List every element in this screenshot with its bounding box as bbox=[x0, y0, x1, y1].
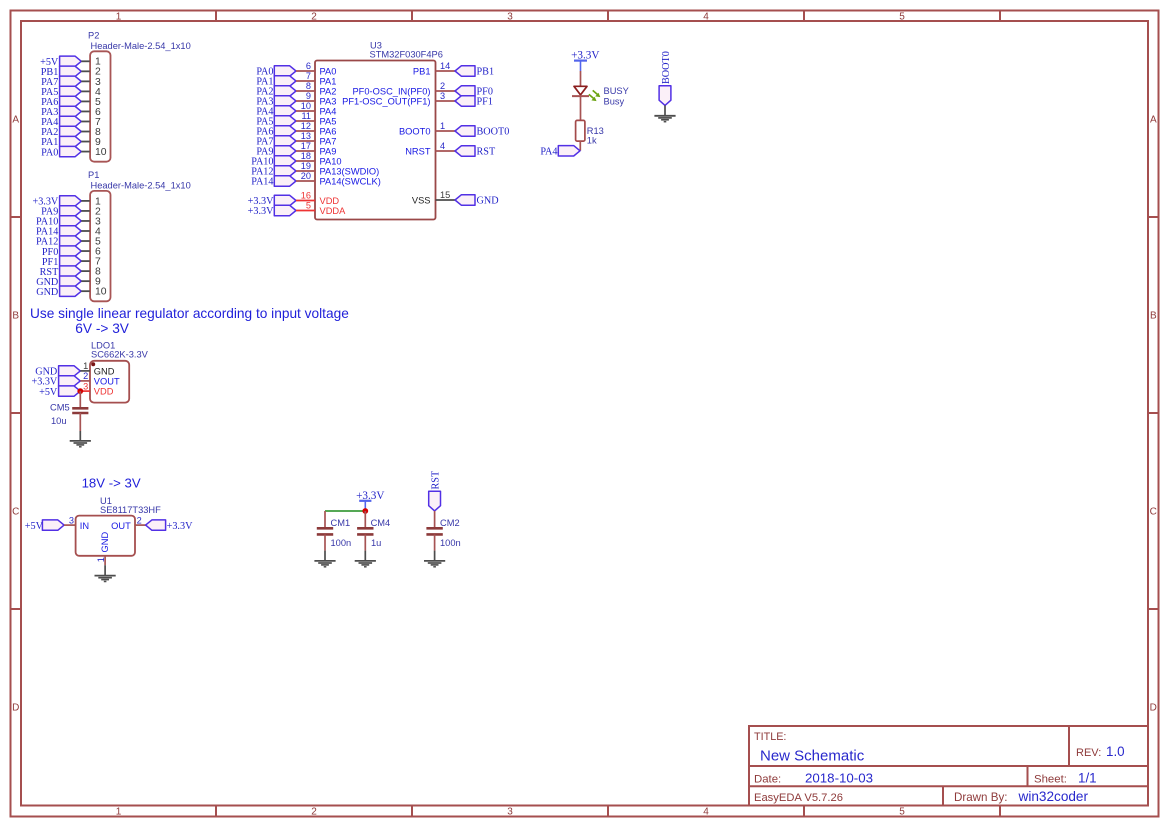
svg-text:Drawn By:: Drawn By: bbox=[954, 791, 1007, 804]
svg-text:C: C bbox=[1150, 506, 1157, 517]
svg-text:PB1: PB1 bbox=[413, 67, 431, 77]
svg-text:GND: GND bbox=[477, 196, 499, 207]
U3 right pin 4 NRST / net RST bbox=[405, 141, 496, 158]
svg-text:2: 2 bbox=[440, 81, 445, 91]
svg-text:OUT: OUT bbox=[111, 521, 131, 531]
svg-text:2: 2 bbox=[311, 11, 317, 22]
U3 left pin 8 PA2 / net PA2 bbox=[256, 81, 336, 98]
svg-text:PA10: PA10 bbox=[320, 157, 342, 167]
svg-text:2: 2 bbox=[137, 515, 142, 525]
title block DrawnBy divider bbox=[942, 786, 944, 805]
svg-text:7: 7 bbox=[306, 71, 311, 81]
svg-text:+3.3V: +3.3V bbox=[248, 206, 274, 217]
power flag +3.3V (LED) bbox=[571, 50, 599, 71]
P1 pin 6 / net PF0 bbox=[42, 246, 101, 258]
svg-text:1: 1 bbox=[440, 121, 445, 131]
frame left tick 2 bbox=[11, 412, 22, 414]
U3 left pin 11 PA5 / net PA5 bbox=[256, 111, 336, 128]
U3 left pin 19 PA13(SWDIO) / net PA12 bbox=[251, 161, 379, 178]
capacitor CM1 plates bbox=[317, 528, 333, 534]
svg-text:BOOT0: BOOT0 bbox=[477, 127, 510, 138]
svg-text:6V -> 3V: 6V -> 3V bbox=[75, 321, 130, 336]
svg-text:14: 14 bbox=[440, 61, 450, 71]
title block row divider 1 bbox=[749, 765, 1148, 767]
LDO1 pin1 dot bbox=[91, 362, 95, 366]
U3 left pin 13 PA7 / net PA7 bbox=[256, 131, 336, 148]
LED emission arrow 1 bbox=[593, 90, 601, 97]
svg-text:PA0: PA0 bbox=[320, 67, 337, 77]
frame bottom tick 4 bbox=[803, 806, 805, 817]
svg-text:Use single linear regulator ac: Use single linear regulator according to… bbox=[30, 306, 349, 321]
LED D1 cathode bar bbox=[572, 95, 589, 97]
svg-text:1: 1 bbox=[116, 11, 122, 22]
frame bottom tick 2 bbox=[411, 806, 413, 817]
svg-text:8: 8 bbox=[306, 81, 311, 91]
LED emission arrow 2 bbox=[589, 94, 597, 101]
U3 left pin 6 PA0 / net PA0 bbox=[256, 61, 336, 78]
svg-text:12: 12 bbox=[301, 121, 311, 131]
svg-text:A: A bbox=[1150, 114, 1157, 125]
U1 pin 1 wire to ground bbox=[104, 556, 106, 575]
svg-text:PA6: PA6 bbox=[320, 127, 337, 137]
svg-text:GND: GND bbox=[100, 532, 110, 553]
svg-text:9: 9 bbox=[306, 91, 311, 101]
frame bottom tick 1 bbox=[215, 806, 217, 817]
svg-text:15: 15 bbox=[440, 190, 450, 200]
frame right tick 3 bbox=[1148, 608, 1159, 610]
svg-text:10u: 10u bbox=[51, 416, 67, 426]
wire +3.3V to LED anode bbox=[580, 71, 582, 86]
LDO1 pin 3 VDD / net +5V bbox=[39, 381, 114, 397]
svg-text:100n: 100n bbox=[440, 538, 461, 548]
U3 left pin 10 PA4 / net PA4 bbox=[256, 101, 336, 118]
svg-text:4: 4 bbox=[703, 806, 709, 817]
svg-text:13: 13 bbox=[301, 131, 311, 141]
capacitor CM5 plates bbox=[72, 408, 88, 413]
svg-text:PF1: PF1 bbox=[477, 97, 493, 108]
svg-text:D: D bbox=[12, 702, 19, 713]
P2 pin 10 / net PA0 bbox=[41, 146, 107, 158]
U3 right pin 1 BOOT0 / net BOOT0 bbox=[399, 121, 509, 138]
LDO1 pin 2 VOUT / net +3.3V bbox=[31, 371, 119, 387]
svg-text:PB1: PB1 bbox=[477, 67, 495, 78]
svg-text:VSS: VSS bbox=[412, 196, 431, 206]
U3 right pin 3 PF1-OSC_OUT(PF1) / net PF1 bbox=[342, 91, 493, 108]
capacitor CM2 plates bbox=[426, 528, 442, 534]
svg-text:R13: R13 bbox=[587, 126, 604, 136]
svg-text:3: 3 bbox=[507, 11, 513, 22]
regulator LDO1 body bbox=[90, 361, 129, 403]
svg-text:PF0-OSC_IN(PF0): PF0-OSC_IN(PF0) bbox=[352, 87, 430, 97]
net flag BOOT0 (vertical) bbox=[659, 51, 672, 105]
svg-text:11: 11 bbox=[301, 111, 311, 121]
frame top tick 2 bbox=[411, 11, 413, 22]
connector P2 body bbox=[90, 51, 110, 161]
P1 pin 2 / net PA9 bbox=[41, 206, 101, 218]
svg-text:REV:: REV: bbox=[1076, 747, 1101, 759]
wire +3.3V junction to CM4 bbox=[364, 511, 366, 528]
svg-text:+5V: +5V bbox=[39, 387, 58, 398]
wire RST to CM2 bbox=[434, 511, 436, 528]
P2 pin 3 / net PA7 bbox=[41, 76, 101, 88]
wire CM5 to ground bbox=[79, 413, 81, 441]
svg-text:D: D bbox=[1150, 702, 1157, 713]
svg-text:PA14(SWCLK): PA14(SWCLK) bbox=[320, 177, 381, 187]
svg-text:VOUT: VOUT bbox=[94, 377, 120, 387]
P1 pin 4 / net PA14 bbox=[36, 226, 101, 238]
svg-text:PA5: PA5 bbox=[320, 117, 337, 127]
svg-text:18: 18 bbox=[301, 151, 311, 161]
svg-text:VDD: VDD bbox=[94, 387, 114, 397]
wire CM4 to ground bbox=[364, 534, 366, 560]
P2 pin 5 / net PA6 bbox=[41, 96, 101, 108]
svg-text:Header-Male-2.54_1x10: Header-Male-2.54_1x10 bbox=[91, 181, 191, 191]
mcu U3 body bbox=[315, 61, 436, 220]
svg-text:PA13(SWDIO): PA13(SWDIO) bbox=[320, 167, 380, 177]
wire to CM1 top bbox=[324, 511, 326, 528]
svg-text:Sheet:: Sheet: bbox=[1034, 773, 1067, 785]
U3 left pin 17 PA9 / net PA9 bbox=[256, 141, 336, 158]
svg-text:5: 5 bbox=[899, 806, 905, 817]
power flag +3.3V (caps) bbox=[356, 490, 384, 509]
U3 power pin 5 VDDA / net +3.3V bbox=[248, 201, 346, 218]
P1 pin 7 / net PF1 bbox=[42, 256, 101, 268]
svg-text:3: 3 bbox=[507, 806, 513, 817]
svg-text:20: 20 bbox=[301, 171, 311, 181]
svg-text:10: 10 bbox=[95, 287, 107, 298]
green wire +3.3V to CM1 bbox=[325, 510, 365, 512]
svg-text:1u: 1u bbox=[371, 538, 381, 548]
P2 pin 2 / net PB1 bbox=[41, 66, 101, 78]
ground (CM2) bbox=[424, 561, 445, 567]
svg-text:GND: GND bbox=[36, 287, 58, 298]
frame left tick 3 bbox=[11, 608, 22, 610]
svg-text:5: 5 bbox=[306, 201, 311, 211]
ground (CM1) bbox=[314, 561, 335, 567]
svg-text:17: 17 bbox=[301, 141, 311, 151]
U1 pin 3 IN / net +5V bbox=[25, 515, 89, 532]
svg-text:PA4: PA4 bbox=[320, 107, 337, 117]
svg-text:RST: RST bbox=[430, 470, 441, 489]
P1 pin 10 / net GND bbox=[36, 286, 107, 298]
wire CM1 to ground bbox=[324, 534, 326, 560]
frame top tick 5 bbox=[999, 11, 1001, 22]
svg-text:B: B bbox=[12, 310, 19, 321]
ground (U1) bbox=[95, 576, 116, 582]
svg-text:NRST: NRST bbox=[405, 147, 431, 157]
svg-text:1: 1 bbox=[83, 361, 88, 371]
svg-text:10: 10 bbox=[301, 101, 311, 111]
U3 left pin 12 PA6 / net PA6 bbox=[256, 121, 336, 138]
U3 power pin 16 VDD / net +3.3V bbox=[248, 191, 340, 208]
svg-text:19: 19 bbox=[301, 161, 311, 171]
P2 pin 8 / net PA2 bbox=[41, 126, 101, 138]
svg-text:2: 2 bbox=[311, 806, 317, 817]
svg-text:BOOT0: BOOT0 bbox=[661, 51, 672, 84]
svg-text:CM2: CM2 bbox=[440, 518, 460, 528]
P1 pin 5 / net PA12 bbox=[36, 236, 101, 248]
svg-text:4: 4 bbox=[703, 11, 709, 22]
svg-text:100n: 100n bbox=[331, 538, 352, 548]
U3 right pin 14 PB1 / net PB1 bbox=[413, 61, 494, 78]
svg-text:2018-10-03: 2018-10-03 bbox=[805, 770, 873, 785]
svg-text:1k: 1k bbox=[587, 135, 597, 145]
P2 pin 9 / net PA1 bbox=[41, 136, 101, 148]
frame right tick 1 bbox=[1148, 216, 1159, 218]
title block REV divider bbox=[1068, 726, 1070, 766]
svg-text:B: B bbox=[1150, 310, 1157, 321]
P1 pin 8 / net RST bbox=[40, 266, 101, 278]
svg-text:5: 5 bbox=[899, 11, 905, 22]
svg-text:IN: IN bbox=[80, 521, 89, 531]
svg-text:1/1: 1/1 bbox=[1078, 770, 1097, 785]
svg-text:A: A bbox=[12, 114, 19, 125]
P2 pin 4 / net PA5 bbox=[41, 86, 101, 98]
svg-text:New Schematic: New Schematic bbox=[760, 747, 865, 764]
svg-text:2: 2 bbox=[83, 371, 88, 381]
ground (CM5) bbox=[70, 441, 91, 447]
U3 right pin 15 VSS / net GND bbox=[412, 190, 499, 207]
U3 left pin 7 PA1 / net PA1 bbox=[256, 71, 336, 88]
wire CM2 to ground bbox=[434, 534, 436, 560]
connector P1 body bbox=[90, 191, 110, 301]
svg-text:PA4: PA4 bbox=[540, 147, 557, 158]
LDO1 pin 1 GND / net GND bbox=[35, 361, 115, 377]
svg-text:18V -> 3V: 18V -> 3V bbox=[82, 476, 141, 491]
P1 pin 1 / net +3.3V bbox=[32, 196, 101, 208]
frame top tick 1 bbox=[215, 11, 217, 22]
title block row divider 2 bbox=[749, 785, 1148, 787]
svg-text:CM5: CM5 bbox=[50, 402, 70, 412]
svg-text:PA0: PA0 bbox=[41, 147, 58, 158]
svg-text:PA3: PA3 bbox=[320, 97, 337, 107]
svg-text:CM1: CM1 bbox=[331, 518, 351, 528]
P1 pin 9 / net GND bbox=[36, 276, 101, 288]
svg-text:PA7: PA7 bbox=[320, 137, 337, 147]
title block outline bbox=[749, 726, 1148, 806]
svg-text:10: 10 bbox=[95, 147, 107, 158]
net flag RST (vertical) bbox=[429, 470, 442, 511]
svg-text:+5V: +5V bbox=[25, 521, 44, 532]
P2 pin 1 / net +5V bbox=[40, 56, 101, 68]
svg-text:Busy: Busy bbox=[604, 96, 625, 106]
frame left tick 1 bbox=[11, 216, 22, 218]
net flag PA4 bbox=[540, 146, 580, 158]
U3 right pin 2 PF0-OSC_IN(PF0) / net PF0 bbox=[352, 81, 492, 98]
svg-text:4: 4 bbox=[440, 141, 445, 151]
svg-text:PA9: PA9 bbox=[320, 147, 337, 157]
U1 pin 2 OUT / net +3.3V bbox=[111, 515, 193, 532]
svg-text:+3.3V: +3.3V bbox=[167, 521, 193, 532]
svg-text:BOOT0: BOOT0 bbox=[399, 127, 431, 137]
svg-text:PA2: PA2 bbox=[320, 87, 337, 97]
wire LED cathode to R13 bbox=[580, 96, 582, 120]
ground (CM4) bbox=[355, 561, 376, 567]
frame right tick 2 bbox=[1148, 412, 1159, 414]
ground (BOOT0) bbox=[654, 116, 675, 122]
svg-text:P1: P1 bbox=[88, 170, 99, 180]
resistor R13 body bbox=[576, 120, 585, 141]
P2 pin 7 / net PA4 bbox=[41, 116, 101, 128]
LED D1 triangle bbox=[574, 86, 587, 95]
svg-text:6: 6 bbox=[306, 61, 311, 71]
junction dot +5V/CM5 bbox=[77, 388, 83, 394]
svg-text:STM32F030F4P6: STM32F030F4P6 bbox=[370, 50, 443, 60]
P1 pin 3 / net PA10 bbox=[36, 216, 101, 228]
svg-text:C: C bbox=[12, 506, 19, 517]
capacitor CM4 plates bbox=[357, 528, 373, 534]
U3 left pin 18 PA10 / net PA10 bbox=[251, 151, 341, 168]
frame top tick 3 bbox=[607, 11, 609, 22]
svg-text:1.0: 1.0 bbox=[1106, 744, 1125, 759]
svg-text:3: 3 bbox=[440, 91, 445, 101]
svg-text:3: 3 bbox=[69, 515, 74, 525]
svg-text:EasyEDA V5.7.26: EasyEDA V5.7.26 bbox=[754, 792, 843, 804]
svg-text:PA1: PA1 bbox=[320, 77, 337, 87]
wire R13 to PA4 bbox=[579, 141, 581, 151]
svg-text:Date:: Date: bbox=[754, 773, 781, 785]
svg-text:PA14: PA14 bbox=[251, 177, 273, 188]
svg-text:16: 16 bbox=[301, 191, 311, 201]
svg-text:BUSY: BUSY bbox=[604, 86, 629, 96]
svg-text:SE8117T33HF: SE8117T33HF bbox=[100, 505, 161, 515]
svg-text:GND: GND bbox=[94, 367, 115, 377]
frame bottom tick 5 bbox=[999, 806, 1001, 817]
svg-text:VDD: VDD bbox=[320, 196, 340, 206]
svg-text:3: 3 bbox=[83, 381, 88, 391]
svg-text:CM4: CM4 bbox=[371, 518, 391, 528]
regulator U1 body bbox=[76, 516, 135, 556]
svg-text:1: 1 bbox=[116, 806, 122, 817]
svg-text:TITLE:: TITLE: bbox=[754, 731, 786, 743]
U3 left pin 20 PA14(SWCLK) / net PA14 bbox=[251, 171, 381, 188]
wire +5V to CM5 bbox=[79, 391, 81, 408]
svg-text:win32coder: win32coder bbox=[1018, 789, 1089, 804]
wire BOOT0 to ground bbox=[664, 105, 666, 115]
frame bottom tick 3 bbox=[607, 806, 609, 817]
svg-text:PF1-OSC_OUT(PF1): PF1-OSC_OUT(PF1) bbox=[342, 97, 430, 107]
svg-text:Header-Male-2.54_1x10: Header-Male-2.54_1x10 bbox=[91, 41, 191, 51]
U3 left pin 9 PA3 / net PA3 bbox=[256, 91, 336, 108]
junction dot +3.3V/CM4 bbox=[362, 508, 368, 514]
svg-text:RST: RST bbox=[477, 147, 496, 158]
svg-text:SC662K-3.3V: SC662K-3.3V bbox=[91, 349, 149, 359]
P2 pin 6 / net PA3 bbox=[41, 106, 101, 118]
frame top tick 4 bbox=[803, 11, 805, 22]
svg-text:VDDA: VDDA bbox=[320, 206, 347, 216]
svg-text:P2: P2 bbox=[88, 30, 99, 40]
title block Sheet divider bbox=[1027, 766, 1029, 786]
